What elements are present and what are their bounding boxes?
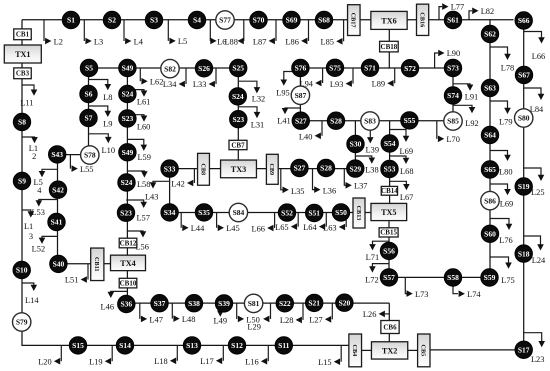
load branch L32 (238, 81, 265, 103)
bus S23 (119, 110, 136, 127)
load branch L52 (32, 236, 58, 253)
svg-text:S22: S22 (279, 299, 291, 308)
bus S28 (327, 112, 344, 129)
load branch L63 (323, 213, 346, 233)
wire S33 to S34 (169, 169, 171, 213)
bus S10 (13, 261, 30, 278)
svg-text:TX5: TX5 (381, 208, 396, 217)
load branch L66 (524, 32, 546, 62)
svg-text:S67: S67 (518, 71, 530, 80)
wire S73-S74-S85 (452, 68, 454, 121)
svg-text:S7: S7 (85, 114, 93, 123)
svg-text:S14: S14 (119, 341, 131, 350)
load branch L8 (89, 80, 113, 103)
svg-text:S72: S72 (404, 64, 416, 73)
svg-text:L3: L3 (94, 37, 103, 46)
svg-text:CB16: CB16 (418, 12, 425, 27)
wire S76-S87-S27 (299, 68, 301, 121)
svg-text:L85: L85 (321, 38, 335, 47)
bus S65 (481, 161, 498, 178)
bus S74 (444, 87, 461, 104)
bus S42 (49, 181, 66, 198)
svg-text:S73: S73 (447, 64, 459, 73)
svg-text:CB4: CB4 (351, 345, 358, 357)
load branch L62 (140, 68, 163, 87)
svg-text:S4: S4 (193, 16, 201, 25)
breaker CB10 (119, 278, 137, 288)
svg-text:S83: S83 (364, 117, 376, 126)
load branch L73 (405, 277, 428, 299)
load branch L84 (524, 88, 545, 114)
load branch L23 (524, 333, 545, 364)
bus S9 (13, 172, 30, 189)
svg-text:L61: L61 (137, 97, 151, 106)
svg-text:L72: L72 (365, 276, 379, 285)
load branch L51 (65, 264, 88, 285)
svg-text:L18: L18 (154, 357, 168, 366)
load branch L40 (299, 121, 322, 142)
svg-text:CB12: CB12 (120, 239, 137, 247)
svg-text:S69: S69 (286, 16, 298, 25)
wire tap S30-S29 (354, 121, 356, 169)
bus S4 (188, 11, 205, 28)
load branch L79 (490, 101, 513, 126)
bus S87 (open/white) (291, 86, 309, 104)
svg-text:S11: S11 (278, 341, 290, 350)
breaker CB12 (119, 238, 137, 248)
svg-text:L89: L89 (372, 80, 386, 89)
bus S41 (48, 213, 65, 230)
load branch L76 (490, 219, 513, 246)
load branch L42 (171, 169, 194, 189)
svg-text:S51: S51 (308, 209, 320, 218)
svg-text:L49: L49 (214, 317, 228, 326)
load branch L56 (127, 231, 149, 251)
svg-text:S77: S77 (219, 16, 231, 25)
svg-text:L44: L44 (191, 224, 205, 233)
load branch L70 (437, 121, 460, 145)
bus S72 (401, 59, 418, 76)
load branch L55 (70, 155, 93, 175)
svg-text:L8: L8 (103, 93, 112, 102)
breaker CB4 (349, 334, 362, 367)
load branch L6 (210, 20, 226, 47)
bus S62 (481, 25, 498, 42)
load branch L5 (168, 20, 187, 47)
svg-text:L34: L34 (163, 80, 177, 89)
load branch L65 (275, 213, 298, 232)
svg-text:CB10: CB10 (120, 279, 137, 287)
load branch L75 (490, 257, 515, 285)
bus S67 (515, 66, 532, 83)
svg-text:S28: S28 (320, 164, 332, 173)
bus S75 (326, 59, 343, 76)
load branch L87 (253, 20, 276, 47)
bus S5 (80, 59, 97, 76)
svg-text:CB1: CB1 (16, 31, 30, 39)
load branch L12 (22, 137, 38, 161)
bus S85 (open/white) (444, 112, 462, 130)
load branch L16 (245, 345, 268, 366)
bus S83 (open/white) (361, 112, 379, 130)
bus S64 (481, 126, 498, 143)
svg-text:L65: L65 (275, 223, 289, 232)
load branch L93 (330, 68, 353, 89)
bus S71 (361, 59, 378, 76)
svg-text:S60: S60 (484, 230, 496, 239)
wire column S43-S42-S41-S40 (57, 155, 59, 264)
load branch L95 (276, 72, 296, 98)
bus S37 (151, 295, 168, 312)
load branch L77 (439, 3, 464, 20)
svg-text:S87: S87 (295, 91, 307, 100)
svg-text:S42: S42 (52, 185, 64, 194)
bus S60 (481, 225, 498, 242)
svg-text:L48: L48 (182, 315, 196, 324)
svg-text:S75: S75 (329, 64, 341, 73)
svg-text:S55: S55 (404, 116, 416, 125)
svg-text:L74: L74 (467, 290, 481, 299)
load branch L72 (365, 264, 389, 285)
bus S49 (119, 144, 136, 161)
bus S79 (open/white) (13, 313, 31, 331)
svg-text:L35: L35 (291, 187, 305, 196)
bus S6 (80, 85, 97, 102)
svg-text:TX3: TX3 (231, 165, 246, 174)
load branch L26 (363, 310, 389, 319)
svg-text:S20: S20 (339, 298, 351, 307)
svg-text:CB5: CB5 (420, 345, 427, 357)
bus S29 (347, 160, 364, 177)
wire TX2 to CB5 (408, 349, 418, 351)
bus S50 (332, 204, 349, 221)
svg-text:S86: S86 (484, 196, 496, 205)
svg-text:S74: S74 (447, 91, 459, 100)
svg-text:CB3: CB3 (16, 70, 30, 78)
wire bus S76-S75-S71-S72-S73 (300, 67, 453, 69)
load branch L54 (34, 169, 58, 195)
svg-text:S34: S34 (164, 208, 176, 217)
load branch L38 (355, 156, 378, 175)
bus S1 (62, 11, 79, 28)
svg-text:L69: L69 (400, 147, 414, 156)
svg-text:S21: S21 (308, 299, 320, 308)
breaker CB16 (417, 4, 429, 35)
svg-text:CB13: CB13 (355, 206, 362, 221)
bus S58 (444, 269, 461, 286)
bus S81 (open/white) (244, 294, 262, 312)
svg-text:CB6: CB6 (383, 323, 397, 331)
bus S23 (117, 204, 134, 221)
bus S25 (230, 59, 247, 76)
svg-text:S37: S37 (154, 299, 166, 308)
svg-text:L87: L87 (253, 37, 267, 46)
svg-text:S35: S35 (198, 208, 210, 217)
bus S36 (118, 295, 135, 312)
svg-text:L78: L78 (501, 63, 515, 72)
svg-text:S5: S5 (85, 64, 93, 73)
load branch L67 (390, 181, 414, 202)
bus S38 (185, 295, 202, 312)
svg-text:L68: L68 (400, 167, 414, 176)
svg-text:L69: L69 (500, 200, 514, 209)
svg-text:S13: S13 (186, 341, 198, 350)
svg-text:S70: S70 (253, 16, 265, 25)
load branch L50 (237, 303, 260, 324)
bus S30 (347, 135, 364, 152)
svg-text:CB15: CB15 (380, 229, 397, 237)
svg-text:CB9: CB9 (268, 163, 275, 175)
svg-text:CB17: CB17 (350, 13, 357, 28)
svg-text:S49: S49 (122, 64, 134, 73)
svg-text:L64: L64 (303, 223, 317, 232)
bus S57 (380, 269, 397, 286)
svg-text:L93: L93 (330, 80, 344, 89)
bus S35 (195, 204, 212, 221)
bus S2 (103, 11, 120, 28)
load branch L68 (390, 156, 414, 176)
load branch L39 (366, 131, 380, 155)
svg-text:L40: L40 (299, 132, 313, 141)
wire column S49-S24-S23-S49-S24-S23-CB12-TX4-CB10-S36 (126, 68, 128, 304)
load branch L20 (38, 345, 61, 366)
bus S70 (250, 11, 267, 28)
load branch L35 (281, 169, 305, 196)
svg-text:S76: S76 (295, 64, 307, 73)
svg-text:L2: L2 (54, 37, 63, 46)
svg-text:L59: L59 (137, 153, 151, 162)
svg-text:S52: S52 (281, 208, 293, 217)
load branch L3 (84, 20, 103, 47)
svg-text:L77: L77 (451, 3, 465, 12)
load branch L85 (321, 20, 344, 47)
svg-text:L66: L66 (252, 224, 266, 233)
load branch L82 (469, 7, 494, 20)
svg-text:CB14: CB14 (381, 187, 398, 195)
load branch L2 (44, 20, 63, 47)
svg-text:S64: S64 (484, 131, 496, 140)
svg-text:L38: L38 (365, 166, 379, 175)
bus S54 (381, 135, 398, 152)
load branch L64 (303, 213, 326, 232)
svg-text:L63: L63 (323, 223, 337, 232)
load branch L43 (145, 181, 170, 201)
svg-text:S66: S66 (518, 16, 530, 25)
bus S43 (49, 146, 66, 163)
svg-text:L80: L80 (499, 167, 513, 176)
svg-text:CB11: CB11 (93, 257, 100, 271)
load branch L11 (20, 85, 37, 108)
svg-text:L43: L43 (145, 192, 159, 201)
load branch L41 (277, 108, 300, 125)
svg-text:S23: S23 (232, 115, 244, 124)
load branch L14 (22, 283, 40, 305)
load branch L91 (453, 84, 478, 102)
load branch L92 (453, 105, 479, 128)
svg-text:S71: S71 (364, 64, 376, 73)
bus S23 (230, 111, 247, 128)
svg-text:L73: L73 (415, 290, 429, 299)
load branch L53 (31, 200, 57, 217)
svg-text:S65: S65 (484, 165, 496, 174)
bus S55 (401, 112, 418, 129)
load branch L71 (366, 241, 389, 262)
load branch L27 (309, 303, 332, 325)
svg-text:L91: L91 (465, 92, 479, 101)
bus S28 (317, 159, 334, 176)
svg-text:S80: S80 (518, 114, 530, 123)
svg-text:L26: L26 (363, 310, 377, 319)
load branch L57 (126, 200, 150, 222)
svg-text:L86: L86 (285, 37, 299, 46)
bus S80 (open/white) (515, 109, 533, 127)
bus S69 (283, 11, 300, 28)
svg-text:L70: L70 (446, 135, 460, 144)
bus S14 (116, 337, 133, 354)
svg-text:L31: L31 (251, 121, 265, 130)
svg-text:L5: L5 (178, 37, 187, 46)
bus S49 (119, 59, 136, 76)
svg-text:L95: L95 (276, 89, 290, 98)
load branch L60 (127, 115, 150, 132)
svg-text:S81: S81 (248, 299, 260, 308)
bus S18 (515, 245, 532, 262)
wire S43 to S78 (57, 154, 90, 156)
load branch L66 (252, 213, 275, 234)
wire column S66-S67-S80-S19-S18-S17 (523, 20, 525, 350)
svg-text:L19: L19 (89, 357, 103, 366)
svg-text:L9: L9 (103, 120, 112, 129)
svg-text:L37: L37 (354, 182, 368, 191)
load branch L31 (238, 107, 264, 130)
load branch L45 (217, 213, 240, 234)
load branch L46 (101, 291, 128, 311)
svg-text:L46: L46 (101, 302, 115, 311)
load branch L48 (172, 303, 195, 324)
svg-text:S61: S61 (447, 16, 459, 25)
svg-text:L52: L52 (32, 245, 46, 254)
svg-text:2: 2 (32, 152, 36, 161)
svg-text:L92: L92 (465, 119, 479, 128)
svg-text:S3: S3 (150, 16, 158, 25)
bus S13 (183, 337, 200, 354)
load branch L69 (390, 130, 413, 156)
load branch L34 (163, 68, 186, 89)
svg-text:S53: S53 (384, 165, 396, 174)
wire bus S34-S35-S84-S52-S51-S50-CB13-TX5 (170, 212, 371, 214)
svg-text:S23: S23 (122, 114, 134, 123)
bus S63 (481, 79, 498, 96)
wire S40 to CB11 (58, 263, 90, 265)
load branch L88 (224, 20, 243, 47)
svg-text:S26: S26 (198, 64, 210, 73)
bus S7 (80, 109, 97, 126)
bus S52 (278, 204, 295, 221)
wire tap S54-S53-CB14-TX5 (389, 121, 391, 204)
breaker CB3 (14, 68, 32, 79)
breaker CB7 (229, 140, 247, 149)
svg-text:L4: L4 (134, 37, 144, 46)
wire bus S27-S28-S83-S55-S85 (300, 120, 453, 122)
svg-text:L10: L10 (102, 146, 116, 155)
svg-text:S63: S63 (484, 84, 496, 93)
bus S77 (open/white) (216, 11, 234, 29)
bus S59 (481, 269, 498, 286)
svg-text:L62: L62 (150, 78, 164, 87)
svg-text:S50: S50 (335, 208, 347, 217)
bus S73 (444, 59, 461, 76)
breaker CB6 (381, 321, 399, 334)
load branch L28 (280, 303, 303, 325)
load branch L94 (300, 68, 323, 89)
svg-text:S59: S59 (484, 273, 496, 282)
svg-text:L1: L1 (24, 222, 33, 231)
svg-text:S36: S36 (120, 300, 132, 309)
svg-text:S79: S79 (16, 318, 28, 327)
svg-text:L60: L60 (137, 122, 151, 131)
breaker CB8 (198, 153, 210, 185)
transformer TX6 (371, 11, 407, 29)
svg-text:S17: S17 (518, 346, 530, 355)
breaker CB5 (418, 334, 430, 367)
load branch L17 (200, 345, 223, 366)
svg-text:3: 3 (29, 232, 33, 241)
bus S17 (515, 341, 532, 358)
wire CB4 to TX2 (362, 349, 372, 351)
load branch L69 (490, 184, 513, 209)
svg-text:L14: L14 (25, 296, 39, 305)
svg-text:TX6: TX6 (381, 16, 396, 25)
breaker CB13 (353, 198, 365, 228)
load branch L80 (490, 151, 513, 177)
svg-text:L32: L32 (252, 94, 266, 103)
load branch L25 (524, 168, 545, 197)
bus S40 (50, 255, 67, 272)
svg-text:S9: S9 (18, 177, 26, 186)
svg-text:TX4: TX4 (120, 259, 135, 268)
load branch L13 (22, 210, 34, 241)
svg-text:L41: L41 (277, 116, 291, 125)
bus S19 (515, 178, 532, 195)
bus S11 (275, 337, 292, 354)
svg-text:S56: S56 (383, 247, 395, 256)
bus S24 (119, 85, 136, 102)
breaker CB9 (266, 154, 278, 184)
load branch L89 (372, 68, 395, 89)
svg-text:S43: S43 (51, 150, 63, 159)
bus S68 (315, 11, 332, 28)
load branch L59 (127, 139, 151, 162)
svg-text:L56: L56 (135, 242, 149, 251)
svg-text:L88: L88 (224, 37, 238, 46)
svg-text:S25: S25 (232, 64, 244, 73)
load branch L86 (285, 20, 308, 47)
bus S24 (118, 174, 135, 191)
wire bus S5-S25 (89, 67, 238, 69)
transformer TX1 (4, 45, 41, 63)
load branch L29 (247, 303, 270, 331)
svg-text:S29: S29 (349, 164, 361, 173)
svg-text:L15: L15 (318, 358, 332, 367)
svg-text:S84: S84 (233, 208, 245, 217)
wire S20 corner to CB6-TX2 (388, 303, 390, 342)
wire left feeder TX1 column and bottom bus (22, 20, 349, 346)
breaker CB17 (348, 5, 361, 36)
svg-text:S1: S1 (67, 16, 75, 25)
svg-text:L25: L25 (531, 188, 545, 197)
svg-text:L29: L29 (247, 322, 261, 331)
svg-text:L11: L11 (20, 99, 33, 108)
